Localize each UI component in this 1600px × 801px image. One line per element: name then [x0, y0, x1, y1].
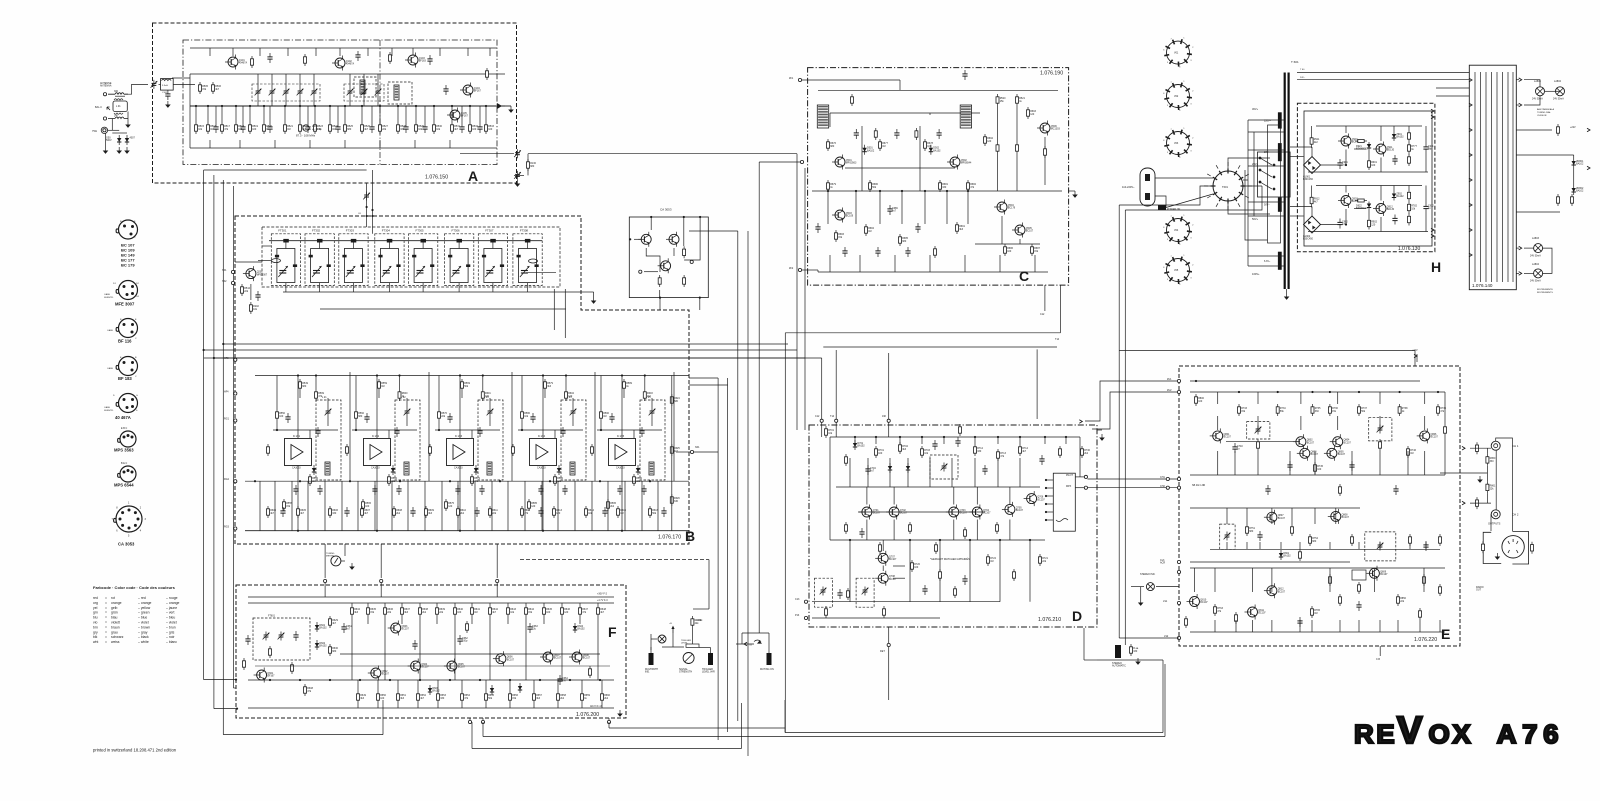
wire drop	[357, 481, 359, 531]
wire	[1516, 79, 1519, 81]
wire	[1190, 561, 1350, 563]
wire	[344, 140, 346, 148]
resistor R635	[367, 605, 377, 617]
resistor R654	[461, 691, 471, 703]
wire	[565, 376, 567, 390]
wire	[1516, 104, 1519, 106]
junction	[366, 215, 368, 217]
wire drop	[1291, 508, 1293, 524]
DIN output socket	[1483, 532, 1528, 565]
wire drop	[1329, 542, 1331, 549]
wire vcap feed	[257, 74, 259, 88]
capacitor C709	[955, 437, 960, 447]
resistor R738	[1398, 404, 1408, 416]
resistor R646	[561, 605, 571, 617]
svg-text:BC107: BC107	[1278, 590, 1286, 593]
resistor R628	[269, 646, 272, 658]
capacitor C581	[530, 413, 535, 423]
svg-text:METER: METER	[326, 556, 334, 558]
wire	[623, 391, 625, 398]
resistor R861	[1486, 481, 1496, 493]
wire drop	[1217, 392, 1219, 404]
wire top drop	[467, 48, 469, 56]
wire B mid rail	[245, 480, 689, 482]
wire	[829, 113, 831, 127]
svg-text:680: 680	[1312, 540, 1317, 543]
filter FT304 box	[375, 229, 404, 286]
svg-text:IC 204: IC 204	[538, 435, 546, 438]
svg-text:100: 100	[546, 611, 551, 614]
transistor Q104	[460, 83, 482, 98]
wire meter link	[344, 544, 346, 556]
junction	[399, 480, 401, 482]
svg-text:4k7: 4k7	[364, 512, 369, 515]
trimmer capacitor C114	[311, 88, 318, 97]
resistor R518	[235, 122, 245, 134]
resistor R608	[304, 684, 314, 696]
wire drop 2	[974, 458, 976, 487]
capacitor C510	[267, 53, 272, 63]
wire lower rail in A	[190, 147, 497, 149]
loom pin	[1469, 153, 1472, 157]
svg-text:SUBSTR.: SUBSTR.	[104, 297, 114, 299]
resistor R681	[939, 180, 949, 192]
wire	[327, 417, 329, 427]
resistor R714	[1019, 444, 1029, 456]
transistor Q911	[1373, 142, 1395, 157]
ground	[1135, 658, 1141, 665]
wire cap drop	[461, 106, 463, 123]
wire to ground	[581, 291, 594, 293]
svg-text:2k2: 2k2	[647, 395, 652, 398]
wire into Q101	[173, 83, 195, 85]
transistor Q801	[1210, 428, 1232, 443]
svg-text:CASE: CASE	[104, 406, 110, 409]
svg-text:1M: 1M	[210, 128, 213, 131]
trimmer capacitor in FT305	[416, 266, 426, 277]
wire	[608, 722, 610, 728]
wire emitter drop	[866, 520, 868, 541]
wire C bottom rail	[818, 271, 1048, 273]
wire top drop	[391, 48, 393, 56]
svg-text:BC107: BC107	[1026, 230, 1034, 233]
wire	[108, 129, 119, 131]
trimmer capacitor in FT308	[520, 266, 530, 277]
resistor R770	[1439, 584, 1442, 596]
wire resistor drop	[415, 106, 417, 122]
capacitor C554	[317, 485, 322, 495]
trimmer capacitor C244	[649, 408, 656, 417]
svg-text:330: 330	[332, 512, 337, 515]
pin +22V	[1587, 128, 1590, 132]
wire drop to bottom	[1358, 620, 1360, 632]
wire	[437, 680, 439, 691]
wire drop 4	[1329, 568, 1331, 592]
resistor R544	[241, 284, 251, 296]
wire mains N	[1155, 194, 1213, 208]
input attenuator oval	[272, 259, 281, 263]
wire	[1368, 152, 1370, 158]
wire drop	[1335, 508, 1337, 524]
tube socket V804	[1164, 217, 1192, 244]
wire	[482, 718, 484, 720]
wire drop	[657, 481, 659, 531]
input winding 240 ohm	[108, 117, 128, 119]
wire drop to mid	[1407, 451, 1409, 475]
wire	[454, 617, 456, 624]
svg-text:680: 680	[1249, 530, 1254, 533]
junction	[509, 679, 511, 681]
svg-text:1.076.140: 1.076.140	[1472, 283, 1493, 288]
svg-text:40467A: 40467A	[346, 63, 355, 66]
wire drop	[875, 437, 877, 444]
transistor Q705	[1002, 502, 1024, 517]
filter dashed box L801	[1247, 422, 1270, 439]
svg-text:SUBSTR.: SUBSTR.	[104, 410, 114, 412]
wire	[673, 248, 675, 256]
wire muting run	[742, 632, 769, 634]
svg-text:100: 100	[1198, 400, 1203, 403]
wire drop	[607, 481, 609, 531]
section C dash-dot box 1.076.190	[808, 68, 1069, 286]
svg-text:120: 120	[987, 140, 992, 143]
wire top drop	[287, 48, 289, 56]
svg-text:BC107: BC107	[1037, 498, 1045, 501]
junction	[649, 480, 651, 482]
svg-text:L 21: L 21	[322, 396, 327, 399]
svg-text:100: 100	[279, 415, 284, 418]
trimmer capacitor C115	[347, 88, 354, 97]
svg-text:3k3: 3k3	[536, 697, 541, 700]
svg-text:printed in switzerland 18.2: printed in switzerland 18.208.471 2nd ed…	[93, 748, 177, 753]
loom pin	[1469, 228, 1472, 232]
junction	[629, 238, 631, 240]
wire	[651, 417, 653, 427]
svg-text:blu: blu	[93, 616, 98, 620]
wire	[525, 603, 527, 605]
diode D601	[315, 622, 327, 632]
svg-text:STRENGTH: STRENGTH	[679, 671, 692, 674]
section A inner dash-dot shield box	[183, 40, 497, 165]
capacitor C551	[285, 413, 290, 423]
arrow D top right	[1079, 420, 1082, 424]
svg-text:1.076.170: 1.076.170	[658, 535, 681, 541]
wire E rail 3	[1210, 548, 1440, 550]
wire left harness vertical 2	[213, 175, 215, 709]
svg-text:CA3053: CA3053	[371, 467, 380, 470]
wire	[436, 603, 438, 605]
winding 20V~	[1278, 143, 1282, 161]
wire	[324, 583, 326, 597]
wire resistor drop	[263, 106, 265, 122]
wire drop mid	[855, 191, 857, 224]
svg-text:B30C450: B30C450	[1303, 238, 1314, 241]
capacitor C711	[1039, 455, 1044, 465]
wire primary bottom	[1228, 201, 1270, 214]
coil L105	[394, 85, 399, 100]
resistor R516	[207, 122, 217, 134]
capacitor C621	[538, 507, 543, 517]
wire secondary bus	[1247, 120, 1249, 266]
capacitor C540	[403, 123, 408, 133]
capacitor C663	[527, 623, 538, 633]
resistor R659	[581, 691, 591, 703]
wire stage output drop	[297, 466, 299, 531]
junction	[249, 105, 251, 107]
wire stage input drop	[376, 376, 378, 439]
transistor Q902	[1338, 193, 1363, 208]
wire drop to mid	[1424, 451, 1426, 475]
wire into FT301	[262, 245, 271, 247]
svg-text:4k7: 4k7	[300, 512, 305, 515]
junction	[371, 209, 373, 211]
wire F mesh vertical	[597, 624, 599, 680]
wire	[651, 398, 653, 408]
node E R in	[1177, 486, 1180, 489]
wire	[489, 417, 491, 427]
svg-text:4007: 4007	[130, 137, 136, 140]
pin to dial lamps	[1519, 78, 1522, 82]
wire	[1286, 289, 1288, 293]
wire	[437, 703, 439, 708]
wire	[527, 168, 529, 175]
svg-text:BA102: BA102	[577, 628, 585, 631]
wire vcap feed	[377, 74, 379, 88]
svg-text:110-220V~: 110-220V~	[1122, 185, 1135, 189]
wire drop	[1379, 416, 1381, 430]
svg-text:C12: C12	[815, 415, 820, 418]
wire	[1311, 147, 1313, 157]
wire filter feed	[458, 241, 460, 249]
trimmer capacitor C111	[269, 88, 276, 97]
wire	[485, 680, 487, 691]
zener D921	[1367, 142, 1371, 152]
wire cap drop	[215, 106, 217, 123]
svg-text:BD130: BD130	[1387, 208, 1395, 211]
svg-text:BC107: BC107	[402, 628, 410, 631]
resistor R632	[291, 662, 294, 674]
tube socket V803	[1164, 130, 1192, 157]
wire	[111, 119, 113, 131]
junction	[379, 105, 381, 107]
wire H to E harness 1	[1118, 205, 1120, 638]
section A internal shield divider	[379, 40, 381, 165]
svg-text:RG1: RG1	[224, 418, 230, 421]
junction	[1345, 164, 1347, 166]
wire collector drop	[1009, 487, 1011, 505]
svg-text:MPS 6544: MPS 6544	[114, 483, 134, 488]
wire E rail 2	[1190, 507, 1360, 509]
wire	[676, 451, 690, 453]
resistor R801	[1557, 124, 1560, 136]
svg-text:E: E	[1441, 626, 1450, 642]
capacitor C563	[372, 485, 377, 495]
resistor R732	[959, 424, 962, 436]
svg-text:24V~: 24V~	[1300, 77, 1306, 79]
wire	[1075, 487, 1084, 489]
wire resistor drop	[314, 106, 316, 122]
wire	[276, 421, 278, 430]
wire F mesh vertical	[489, 624, 491, 680]
IC amplifier 201	[285, 435, 312, 470]
wire drop to mid	[1314, 451, 1316, 475]
transistor Q912	[1373, 201, 1395, 216]
junction	[235, 679, 237, 681]
resistor R757	[1409, 534, 1412, 546]
wire	[689, 377, 718, 379]
junction	[542, 530, 544, 532]
junction	[366, 206, 368, 208]
wire	[1245, 170, 1268, 240]
transistor Q504	[994, 200, 1016, 215]
tube socket V805	[1164, 257, 1192, 284]
junction	[599, 679, 601, 681]
trimmer capacitor in FT301	[278, 266, 288, 277]
wire C mid rail	[812, 190, 1062, 192]
resistor R739	[1437, 404, 1447, 416]
capacitor C588	[560, 427, 565, 437]
trimmer capacitor C131	[514, 171, 521, 180]
svg-text:100: 100	[457, 611, 462, 614]
wire	[461, 680, 463, 691]
wire drop to mid	[1234, 451, 1236, 475]
wire secondary run	[1248, 149, 1284, 151]
wire filter bottom drop	[352, 283, 354, 292]
junction	[1045, 479, 1047, 481]
resistor R-100k	[691, 616, 703, 628]
svg-text:– red: – red	[138, 596, 146, 600]
svg-text:BC107: BC107	[889, 558, 897, 561]
resistor R780	[1355, 199, 1367, 202]
wire	[509, 680, 511, 691]
resistor R781	[1408, 190, 1411, 202]
right interconnect box 1.076.140	[1469, 65, 1516, 290]
resistor R520	[263, 122, 273, 134]
node pilot lamp	[1177, 601, 1180, 604]
output jack CH2	[1491, 510, 1500, 519]
svg-text:ZU1: ZU1	[1167, 378, 1172, 381]
wire	[1408, 126, 1410, 130]
coil box L21	[316, 400, 341, 480]
svg-text:ZU2: ZU2	[1167, 389, 1172, 392]
coil box L22	[395, 400, 420, 480]
junction	[284, 105, 286, 107]
wire drop to bottom	[1439, 620, 1441, 632]
junction	[1045, 487, 1047, 489]
svg-text:24V 50mA: 24V 50mA	[1530, 280, 1541, 283]
wire E top rail 2	[1190, 391, 1445, 393]
capacitor C504	[165, 90, 170, 100]
wire secondary run	[1248, 131, 1284, 133]
wire loom vertical	[1480, 72, 1482, 282]
resistor R634	[351, 605, 361, 617]
capacitor C726	[922, 585, 927, 595]
junction	[213, 357, 215, 359]
svg-text:40467A: 40467A	[239, 62, 248, 65]
svg-text:brn: brn	[93, 625, 98, 629]
wire	[975, 243, 1040, 245]
mains plug	[1140, 168, 1155, 206]
svg-text:BA102: BA102	[1283, 555, 1291, 558]
trimmer capacitor C116	[361, 88, 368, 97]
loom pin	[1469, 178, 1472, 182]
ground	[1495, 553, 1501, 560]
wire	[929, 113, 931, 115]
svg-text:OX: OX	[1429, 720, 1474, 749]
junction	[222, 343, 224, 345]
capacitor C696	[842, 247, 847, 257]
wire	[659, 290, 661, 298]
svg-text:Farbcode · Color code · Code d: Farbcode · Color code · Code des couleur…	[93, 585, 176, 590]
capacitor C598	[639, 427, 644, 437]
wire	[299, 391, 301, 398]
wire D out to E upper	[1085, 381, 1177, 421]
balun transformer L01	[113, 101, 127, 112]
junction	[451, 105, 453, 107]
resistor R636	[384, 605, 394, 617]
wire drop	[859, 255, 861, 272]
resistor R559	[378, 379, 388, 391]
resistor R560	[355, 409, 365, 421]
wire	[436, 617, 438, 624]
wire	[1124, 636, 1126, 645]
wire	[888, 353, 890, 419]
pin 5	[639, 270, 642, 273]
node E in L	[1166, 477, 1169, 480]
resistor R601	[481, 389, 491, 401]
resistor R648	[597, 605, 607, 617]
wire interstage column	[428, 372, 430, 481]
coil L21	[325, 462, 330, 475]
wire	[469, 718, 471, 720]
wire drop to bottom rail	[849, 540, 851, 602]
capacitor C769	[1356, 601, 1361, 611]
capacitor C594	[641, 485, 646, 495]
resistor R639	[436, 605, 446, 617]
transistor Q703	[946, 505, 968, 520]
resistor R850	[1397, 594, 1407, 606]
wire resistor drop	[469, 106, 471, 122]
svg-text:680: 680	[530, 165, 535, 168]
svg-text:BF 183: BF 183	[118, 376, 132, 381]
wire	[1425, 213, 1427, 232]
ground	[1072, 191, 1078, 198]
de-emphasis dashed box 1	[815, 578, 833, 607]
resistor R745	[1314, 462, 1324, 474]
svg-text:V05: V05	[1174, 269, 1179, 272]
resistor R567	[346, 444, 349, 456]
wire	[234, 687, 237, 689]
wire -22V	[1516, 211, 1560, 213]
antenna input jack 1	[103, 93, 106, 96]
resistor R719	[909, 522, 912, 534]
svg-text:330: 330	[674, 500, 679, 503]
wire	[572, 417, 574, 427]
svg-text:G: G	[136, 395, 138, 397]
wire lamp 1 feed	[1524, 80, 1540, 87]
wire secondary run	[1248, 215, 1284, 217]
resistor R718	[879, 542, 882, 554]
wire	[269, 240, 542, 242]
svg-text:C.B: C.B	[1376, 658, 1380, 661]
junction	[1045, 495, 1047, 497]
capacitor C537	[305, 123, 310, 133]
resistor R800	[1195, 394, 1205, 406]
wire supply to harness	[1119, 186, 1213, 205]
wire stage rail	[518, 429, 583, 431]
muting jack	[767, 653, 772, 665]
junction	[459, 374, 461, 376]
